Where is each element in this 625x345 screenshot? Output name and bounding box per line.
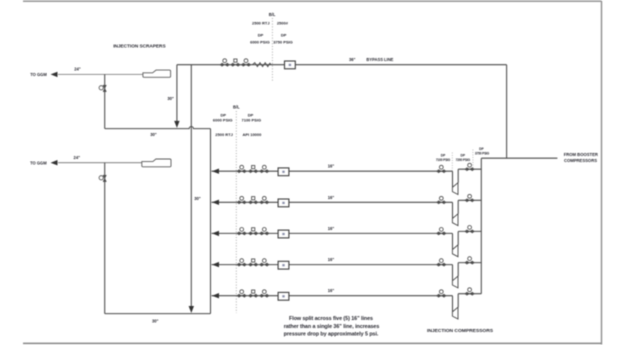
svg-text:DP: DP <box>258 33 264 38</box>
svg-text:30": 30" <box>152 319 159 324</box>
svg-text:7200 PSIG: 7200 PSIG <box>456 158 471 162</box>
valve compressor 4 suction block valve <box>437 259 446 267</box>
wire vertical drop from TO GGM 1 <box>104 74 106 128</box>
wire compressor 1 discharge line <box>458 168 481 170</box>
wire bottom 30-inch line <box>105 313 211 315</box>
valve line 5 valve c <box>260 290 269 298</box>
wire TO GGM 1 24-inch line <box>58 73 143 75</box>
valve line 4 valve b <box>249 259 258 266</box>
svg-text:16": 16" <box>328 288 335 293</box>
svg-text:COMPRESSORS: COMPRESSORS <box>564 158 597 163</box>
svg-text:DP: DP <box>441 154 446 158</box>
svg-text:INJECTION SCRAPERS: INJECTION SCRAPERS <box>113 44 165 49</box>
valve compressor 1 discharge valve <box>465 163 474 171</box>
scraper barrel 2 <box>142 159 171 167</box>
instrument box on 16-inch line 1 <box>278 168 289 176</box>
page bottom border <box>23 342 602 344</box>
arrow into header line 3 <box>212 231 219 236</box>
instrument box on 16-inch line 2 <box>278 199 289 207</box>
valve line 1 valve c <box>260 165 269 173</box>
compressor K1 inlet drop <box>452 171 454 187</box>
svg-text:16": 16" <box>328 195 335 200</box>
valve line 2 valve b <box>249 197 258 204</box>
svg-text:3750 PSIG: 3750 PSIG <box>273 40 293 45</box>
svg-text:16": 16" <box>328 257 335 262</box>
arrow into header line 4 <box>212 262 219 267</box>
svg-text:36": 36" <box>349 57 356 62</box>
valve line 1 valve a <box>237 165 246 173</box>
arrow into header line 2 <box>212 200 219 205</box>
arrow to GGM 2 <box>51 160 58 165</box>
compressor K5 body <box>452 307 458 319</box>
choke / zigzag on bypass line <box>252 63 271 67</box>
instrument box on 16-inch line 3 <box>278 230 289 238</box>
valve line 2 valve c <box>260 196 269 204</box>
wire injection header vertical <box>210 129 212 314</box>
wire bypass 36-inch line <box>177 64 507 66</box>
svg-text:INJECTION COMPRESSORS: INJECTION COMPRESSORS <box>427 328 494 334</box>
svg-text:DP: DP <box>281 33 287 38</box>
svg-text:24": 24" <box>74 66 81 71</box>
svg-text:30": 30" <box>167 96 174 101</box>
wire 16-inch line 1 <box>212 170 453 172</box>
svg-text:rather than a single 36" line,: rather than a single 36" line, increases <box>284 324 380 330</box>
valve line 5 valve a <box>237 290 246 298</box>
svg-text:30": 30" <box>150 132 157 137</box>
svg-text:16": 16" <box>328 164 335 169</box>
page right border <box>601 1 603 345</box>
valve line 4 valve a <box>237 259 246 267</box>
wire TO GGM 2 24-inch line <box>58 162 142 164</box>
svg-text:7100 PSIG: 7100 PSIG <box>242 118 262 123</box>
svg-text:3750 PSIG: 3750 PSIG <box>475 151 490 155</box>
valve line 2 valve a <box>237 196 246 204</box>
compressor K2 discharge riser <box>457 200 459 214</box>
compressor K2 body <box>452 214 458 226</box>
svg-text:API 10000: API 10000 <box>242 132 262 137</box>
svg-text:6000 PSIG: 6000 PSIG <box>213 118 233 123</box>
valve compressor 5 discharge valve <box>465 288 474 296</box>
compressor K3 discharge riser <box>457 231 459 245</box>
B/L break line (top, dashed) <box>271 18 273 82</box>
svg-text:2500 RTJ: 2500 RTJ <box>252 20 270 25</box>
svg-text:2500#: 2500# <box>277 20 289 25</box>
compressor K1 body <box>452 183 458 195</box>
svg-text:FROM BOOSTER: FROM BOOSTER <box>564 152 598 157</box>
wire compressor 2 discharge line <box>458 199 481 201</box>
instrument box on 16-inch line 5 <box>278 292 289 300</box>
svg-text:Flow split across five (5) 16": Flow split across five (5) 16" lines <box>289 316 373 322</box>
svg-text:B/L: B/L <box>233 104 240 109</box>
wire from booster compressors line <box>481 157 557 159</box>
valve line 3 valve c <box>260 228 269 236</box>
compressor K5 discharge riser <box>457 294 459 308</box>
svg-text:DP: DP <box>461 154 466 158</box>
wire 16-inch line 4 <box>212 264 453 266</box>
arrow to GGM 1 <box>51 72 58 77</box>
arrow into header line 1 <box>212 169 219 174</box>
wire compressor 3 discharge line <box>458 230 481 232</box>
compressor K4 discharge riser <box>457 263 459 277</box>
B/L break line (lower, dashed) <box>235 111 237 313</box>
svg-text:TO GGM: TO GGM <box>30 161 47 166</box>
wire bypass drop to booster line <box>506 65 508 159</box>
valve compressor 3 discharge valve <box>465 226 474 234</box>
svg-text:30": 30" <box>194 196 201 201</box>
svg-text:2500 RTJ: 2500 RTJ <box>215 132 233 137</box>
wire 16-inch line 3 <box>212 232 453 234</box>
svg-text:BYPASS LINE: BYPASS LINE <box>366 57 393 62</box>
wire compressor 5 discharge line <box>458 293 481 295</box>
valve line 4 valve c <box>260 259 269 267</box>
valve bypass valve B3 <box>241 59 250 67</box>
valve V1 on upper drop <box>99 85 106 91</box>
svg-text:7100 PSIG: 7100 PSIG <box>436 158 451 162</box>
svg-text:24": 24" <box>74 155 81 160</box>
valve compressor 1 suction block valve <box>437 165 446 173</box>
wire compressor supply header vertical <box>480 158 482 294</box>
svg-text:DP: DP <box>479 147 484 151</box>
compressor K5 inlet drop <box>452 296 454 312</box>
valve compressor 3 suction block valve <box>437 228 446 236</box>
wire 30-inch drop to lower header <box>176 65 178 122</box>
scraper barrel 1 <box>143 70 171 77</box>
svg-text:B/L: B/L <box>269 12 276 17</box>
svg-text:6000 PSIG: 6000 PSIG <box>250 40 270 45</box>
svg-text:pressure drop by approximately: pressure drop by approximately 5 psi. <box>284 332 379 338</box>
compressor K2 inlet drop <box>452 202 454 218</box>
valve bypass valve B2 <box>231 59 240 66</box>
arrow down onto bottom 30-inch line <box>189 306 194 313</box>
instrument box on 16-inch line 4 <box>278 261 289 269</box>
valve compressor 2 suction block valve <box>437 196 446 204</box>
compressor K3 inlet drop <box>452 233 454 249</box>
DP zone separator (dotted) right <box>472 150 474 170</box>
compressor K4 inlet drop <box>452 265 454 281</box>
valve line 5 valve b <box>249 290 258 297</box>
valve V2 on lower drop <box>99 175 106 181</box>
valve compressor 2 discharge valve <box>465 194 474 202</box>
instrument box on bypass line <box>285 61 296 69</box>
arrow into header line 5 <box>212 293 219 298</box>
svg-text:TO GGM: TO GGM <box>30 72 47 77</box>
page top border <box>23 0 602 2</box>
compressor K3 body <box>452 245 458 257</box>
compressor K4 body <box>452 276 458 288</box>
svg-text:16": 16" <box>328 226 335 231</box>
compressor K1 discharge riser <box>457 169 459 183</box>
valve line 3 valve b <box>249 228 258 235</box>
wire 16-inch line 5 <box>212 295 453 297</box>
DP zone separator (dotted) left <box>451 153 453 172</box>
valve compressor 4 discharge valve <box>465 257 474 265</box>
valve bypass valve B1 <box>220 59 229 67</box>
valve line 1 valve b <box>249 166 258 173</box>
arrow down into 30-inch cross line <box>174 121 179 128</box>
wire 16-inch line 2 <box>212 201 453 203</box>
wire vertical drop from TO GGM 2 <box>104 163 106 314</box>
wire 30-inch cross line with crossover hop <box>105 127 211 129</box>
wire compressor 4 discharge line <box>458 262 481 264</box>
valve line 3 valve a <box>237 228 246 236</box>
valve compressor 5 suction block valve <box>437 290 446 298</box>
wire 36-inch vertical to injection header (with bottom arrow) <box>190 65 192 307</box>
